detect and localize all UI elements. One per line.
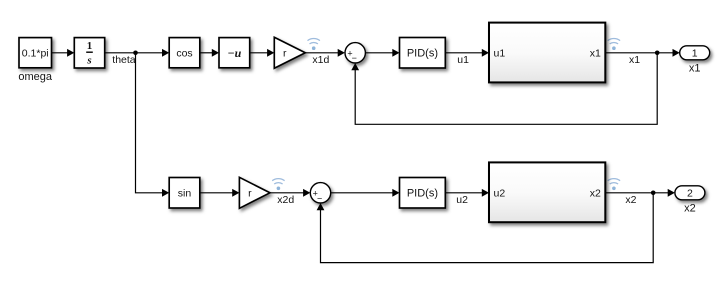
wire integrator to cos: [105, 52, 164, 54]
sum junction 2: [310, 183, 330, 203]
trigonometric block cos: [169, 38, 200, 68]
outport 1: [680, 46, 710, 60]
svg-text:x1: x1: [689, 63, 701, 75]
wire gain r2 to sum2: [270, 192, 305, 194]
logging badge on subsystem2 output: [608, 179, 620, 184]
svg-text:−u: −u: [227, 46, 241, 60]
junction x2 feedback branch point: [651, 191, 656, 196]
svg-text:x2d: x2d: [277, 194, 294, 206]
subsystem 2: [489, 162, 605, 222]
trigonometric block sin: [169, 178, 200, 209]
wire sin to gain r2: [200, 192, 234, 194]
svg-text:u1: u1: [494, 48, 506, 60]
junction theta branch point: [133, 51, 138, 56]
subsystem 1: [489, 23, 605, 83]
sum junction 1: [345, 43, 365, 63]
svg-text:PID(s): PID(s): [407, 48, 438, 60]
gain triangle r (bottom): [239, 177, 270, 208]
feedback wire 1: [355, 53, 657, 125]
logging badge x2d dot: [277, 187, 281, 191]
svg-text:r: r: [283, 48, 287, 60]
wire cos to -u: [200, 52, 213, 54]
svg-text:0.1*pi: 0.1*pi: [22, 47, 49, 59]
logging badge x1 dot: [612, 46, 616, 50]
integrator block 1/s: [74, 38, 104, 68]
wire const to integrator: [52, 52, 69, 54]
svg-text:theta: theta: [112, 54, 136, 66]
wire PID2 to subsystem2: [445, 192, 483, 194]
wire sum1 to PID1: [365, 52, 393, 54]
logging badge on subsystem1 output: [608, 39, 620, 44]
PID controller 2: [400, 178, 446, 209]
svg-text:s: s: [86, 54, 91, 66]
svg-text:1: 1: [692, 48, 698, 60]
svg-text:x1: x1: [629, 54, 640, 66]
logging badge x2d: [272, 179, 284, 184]
svg-text:PID(s): PID(s): [407, 188, 438, 200]
svg-text:2: 2: [687, 188, 693, 200]
logging badge x1d dot: [312, 46, 316, 50]
svg-text:−: −: [352, 53, 357, 63]
PID controller 1: [400, 38, 446, 69]
gain block -u (negate): [219, 38, 250, 68]
wire PID1 to subsystem1: [445, 52, 483, 54]
svg-text:sin: sin: [178, 188, 192, 200]
svg-text:u2: u2: [456, 194, 468, 206]
wire subsystem2 to outport2: [605, 192, 669, 194]
wire subsystem1 to outport1: [605, 52, 673, 54]
svg-text:x2: x2: [590, 187, 601, 199]
wire -u to gain r: [250, 52, 269, 54]
svg-text:1: 1: [87, 40, 93, 52]
svg-text:omega: omega: [18, 71, 53, 83]
constant block 0.1*pi: [19, 38, 52, 68]
branch wire theta to sin: [136, 53, 164, 193]
svg-text:u2: u2: [494, 187, 506, 199]
svg-text:x1: x1: [590, 48, 601, 60]
svg-text:x1d: x1d: [312, 54, 329, 66]
wire gain r to sum1: [305, 52, 339, 54]
wire sum2 to PID2: [331, 192, 394, 194]
gain triangle r (top): [274, 37, 305, 68]
junction x1 feedback branch point: [655, 51, 660, 56]
logging badge x2 dot: [612, 187, 616, 191]
svg-text:cos: cos: [176, 47, 192, 59]
svg-text:x2: x2: [684, 203, 696, 215]
logging badge x1d: [308, 39, 320, 44]
feedback wire 2: [321, 193, 654, 263]
svg-text:u1: u1: [457, 54, 469, 66]
outport 2: [675, 186, 705, 200]
svg-text:r: r: [248, 188, 252, 200]
svg-text:−: −: [317, 193, 322, 203]
svg-text:x2: x2: [625, 194, 636, 206]
